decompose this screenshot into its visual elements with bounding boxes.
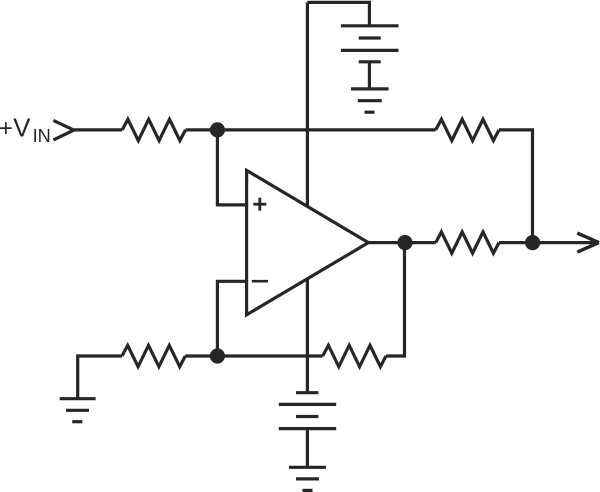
- node B junction dot: [210, 348, 225, 363]
- battery B1 (positive supply): [341, 26, 399, 62]
- wire RF right then down to node D: [499, 130, 533, 243]
- wire node A down to op-amp + input: [217, 130, 246, 205]
- input arrow chevron: [53, 120, 73, 139]
- resistor R2 (to ground, bottom left): [122, 345, 185, 366]
- output arrow head: [577, 233, 599, 252]
- ground G2 (bottom): [289, 467, 326, 490]
- resistor R3 (bottom feedback): [323, 345, 386, 366]
- wire battery B1 to ground G1: [368, 62, 371, 89]
- op-amp inverting input label -: [252, 280, 268, 283]
- node D junction dot (final output): [525, 235, 540, 250]
- wire input to resistor R1: [74, 128, 122, 131]
- wire R2 left then down to ground G3: [78, 356, 122, 399]
- wire op-amp output to node C then resistor R4: [368, 241, 435, 244]
- op-amp U1 (filled triangle, occludes rail): [247, 170, 369, 314]
- svg-text:IN: IN: [33, 126, 51, 146]
- wire node B to feedback resistor R3 (crosses rail): [217, 354, 322, 357]
- svg-text:V: V: [13, 113, 31, 143]
- wire R3 right then up to node C: [386, 243, 405, 356]
- ground G3 (bottom left): [60, 399, 96, 422]
- wire node B to resistor R2: [185, 354, 217, 357]
- wire R4 through node D to output: [499, 241, 599, 244]
- resistor R4 (output series): [436, 232, 499, 253]
- wire node A to feedback resistor RF (crosses rail): [217, 128, 435, 131]
- wire battery B2 to ground G2: [306, 429, 309, 468]
- svg-text:+: +: [0, 115, 13, 142]
- wire positive supply rail (vertical, passes behind op-amp): [306, 2, 309, 392]
- resistor R1 (input): [122, 119, 185, 140]
- battery B2 (negative supply): [279, 393, 336, 429]
- ground G1 (top): [351, 89, 389, 112]
- op-amp non-inverting input label +: [253, 198, 266, 211]
- node A junction dot: [210, 122, 225, 137]
- resistor RF (top feedback): [436, 119, 499, 140]
- wire op-amp - input down to node B: [217, 281, 246, 356]
- node C junction dot (op-amp output): [397, 235, 412, 250]
- wire R1 to node A: [186, 128, 218, 131]
- wire top jog from rail to battery B1: [307, 2, 369, 25]
